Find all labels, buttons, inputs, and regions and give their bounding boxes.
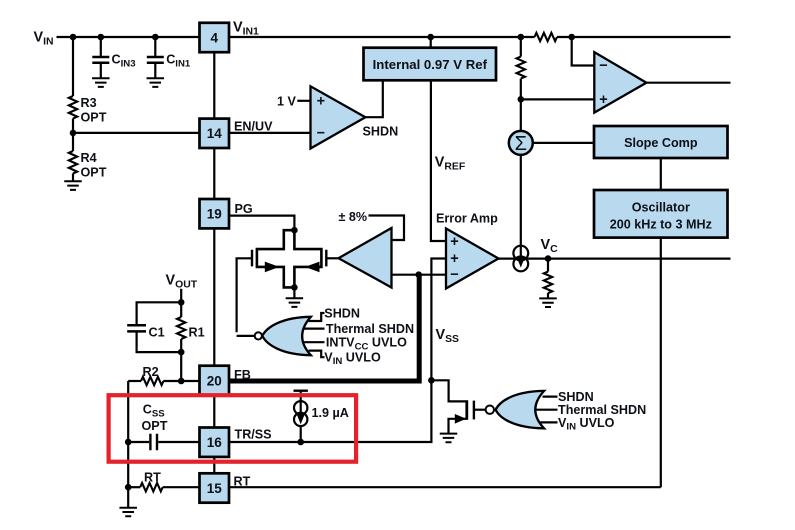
svg-text:+: + [317,94,325,110]
svg-text:−: − [599,58,607,74]
svg-text:19: 19 [207,207,222,222]
svg-text:RT: RT [234,474,251,488]
svg-text:Oscillator: Oscillator [632,200,690,214]
svg-text:R2: R2 [143,365,159,379]
svg-text:+: + [450,234,458,250]
svg-text:± 8%: ± 8% [339,210,368,224]
svg-text:R1: R1 [189,326,205,340]
svg-text:−: − [317,126,325,142]
svg-text:Thermal SHDN: Thermal SHDN [326,322,414,336]
svg-text:Σ: Σ [515,133,527,155]
svg-text:200 kHz to 3 MHz: 200 kHz to 3 MHz [610,217,712,231]
svg-text:SHDN: SHDN [324,306,360,320]
svg-text:Slope Comp: Slope Comp [624,136,698,150]
svg-text:4: 4 [211,30,219,45]
svg-text:OPT: OPT [81,166,107,180]
svg-text:R3: R3 [81,96,97,110]
svg-text:SHDN: SHDN [363,125,399,139]
svg-text:PG: PG [235,202,253,216]
svg-text:Error Amp: Error Amp [436,212,498,226]
svg-text:16: 16 [207,435,223,450]
svg-text:SHDN: SHDN [558,390,594,404]
svg-text:14: 14 [207,126,223,141]
svg-text:RT: RT [144,471,161,485]
svg-text:EN/UV: EN/UV [234,120,273,134]
svg-text:1.9 µA: 1.9 µA [312,406,349,420]
svg-text:+: + [599,92,607,108]
svg-text:1 V: 1 V [277,94,297,108]
svg-text:TR/SS: TR/SS [235,428,272,442]
svg-text:20: 20 [207,373,222,388]
svg-text:C1: C1 [149,326,165,340]
svg-text:Internal 0.97 V Ref: Internal 0.97 V Ref [373,57,488,72]
svg-text:R4: R4 [81,151,97,165]
svg-text:OPT: OPT [142,419,168,433]
svg-text:−: − [450,267,458,283]
svg-text:OPT: OPT [81,111,107,125]
svg-text:+: + [450,251,458,267]
svg-text:15: 15 [207,481,223,496]
svg-text:FB: FB [234,368,251,382]
